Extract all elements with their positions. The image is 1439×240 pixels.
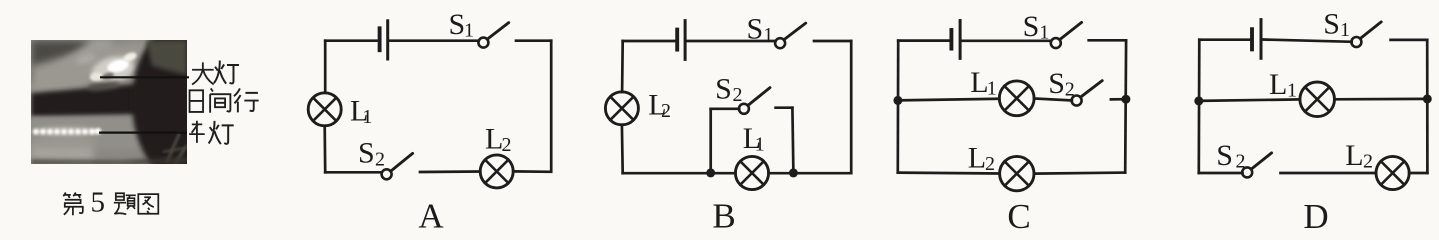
callout line to headlight (da deng) (100, 76, 189, 78)
junction node right (dot) (1121, 95, 1130, 104)
svg-text:1: 1 (1287, 79, 1297, 101)
label CHE (vehicle) (189, 121, 205, 143)
caption DI (ordinal) (63, 193, 83, 216)
label DENG (lamp) after DA (214, 60, 239, 83)
svg-text:1: 1 (987, 77, 997, 99)
svg-text:S: S (715, 72, 732, 105)
battery cell: short negative plate (949, 30, 953, 49)
switch S2 blade (748, 88, 770, 106)
wire D bottom-left to switch S2 (1199, 172, 1243, 175)
switch S2 blade (1251, 153, 1272, 169)
wire C bottom-right from L2 to corner (1034, 173, 1125, 174)
wire C top-right from corner to S1 (1089, 39, 1126, 42)
svg-text:2: 2 (733, 84, 743, 106)
svg-text:L: L (970, 66, 988, 99)
wire C left vertical (896, 41, 899, 173)
svg-text:2: 2 (661, 100, 671, 122)
switch S1 blade (784, 23, 806, 39)
svg-text:1: 1 (362, 106, 372, 128)
svg-text:C: C (1007, 197, 1030, 231)
battery cell: long positive plate (959, 21, 962, 59)
switch S2 pivot (1242, 167, 1252, 177)
switch S2 blade (391, 153, 413, 171)
battery cell: short negative plate (1250, 29, 1254, 49)
label DA (big) (192, 62, 214, 84)
svg-text:S: S (449, 8, 466, 41)
wire B top-left from battery to corner (623, 40, 677, 43)
battery cell: short negative plate (675, 30, 679, 50)
middle rail wire to lamp L1 (898, 99, 999, 101)
switch S1 blade (1360, 22, 1381, 39)
callout line to daytime running lamp (che deng) (99, 132, 187, 134)
lamp L2 (1000, 156, 1034, 190)
label DENG (lamp) after CHE (209, 121, 234, 144)
svg-text:2: 2 (1236, 150, 1246, 172)
battery cell: long positive plate (386, 21, 389, 59)
svg-text:2: 2 (502, 134, 512, 156)
caption TU (figure) (138, 194, 158, 214)
wire C top-left from battery to corner (898, 39, 951, 42)
wire A top between battery and S1 (389, 39, 478, 42)
switch S2 blade (1081, 81, 1103, 98)
svg-text:A: A (418, 197, 444, 232)
switch S2 pivot (739, 104, 749, 114)
wire A top-left from battery to left corner (325, 39, 379, 42)
lamp L1 (1300, 82, 1335, 117)
svg-text:S: S (1323, 8, 1340, 41)
svg-text:S: S (1023, 10, 1040, 43)
junction node left (dot) (893, 96, 902, 105)
wire A bottom to switch S2 (325, 171, 382, 174)
switch S1 blade (1060, 22, 1082, 39)
svg-text:S: S (358, 137, 375, 170)
svg-text:S: S (1048, 67, 1065, 100)
switch S1 pivot (478, 38, 488, 48)
wire B top-right from corner to S1 (814, 40, 851, 43)
S2 bypass branch: left vertical (709, 109, 712, 173)
svg-text:5: 5 (91, 187, 106, 219)
middle rail wire from L1 to switch S2 (1034, 99, 1072, 101)
wire A bottom-right and right vertical (513, 41, 551, 172)
label RI (sun) (190, 90, 204, 112)
svg-text:L: L (1269, 68, 1287, 101)
junction node right (dot) (1423, 94, 1432, 103)
svg-text:L: L (968, 142, 986, 175)
svg-text:1: 1 (1340, 19, 1350, 41)
wire C right vertical (1124, 40, 1128, 172)
battery cell: long positive plate (1260, 20, 1263, 59)
svg-text:S: S (1216, 139, 1233, 172)
svg-text:2: 2 (985, 153, 995, 175)
wire A top-right from corner to switch S1 (516, 39, 551, 42)
wire D top between battery and S1 (1263, 40, 1352, 42)
svg-text:1: 1 (763, 24, 773, 46)
wire A left vertical down to lamp L1 (324, 41, 327, 93)
wire B left vertical to lamp L2 (621, 41, 624, 92)
junction node left (dot) (1194, 96, 1203, 105)
caption TI (problem) (114, 193, 136, 214)
svg-text:2: 2 (1363, 150, 1373, 172)
svg-text:L: L (1345, 139, 1363, 172)
wire B bottom-right from L1 to corner (769, 172, 852, 175)
wire A bottom between S2 and L2 (420, 170, 480, 173)
svg-text:2: 2 (1065, 79, 1075, 101)
svg-text:D: D (1303, 197, 1328, 231)
lamp L1 (999, 81, 1034, 116)
svg-text:1: 1 (755, 133, 765, 155)
battery cell: long positive plate (684, 21, 687, 60)
wire D right vertical (1426, 40, 1429, 173)
wire D left vertical (1197, 40, 1200, 173)
switch S1 pivot (1351, 37, 1361, 47)
wire D bottom-right from L2 to corner (1409, 172, 1427, 175)
label JIAN (between) (210, 88, 230, 112)
svg-text:2: 2 (375, 148, 385, 170)
lamp L1 (308, 93, 341, 126)
switch S1 pivot (775, 38, 785, 48)
S2 branch right horizontal (776, 106, 793, 109)
wire D top-left from battery to corner (1199, 38, 1252, 41)
lamp L2 (1376, 156, 1409, 189)
switch S1 blade (488, 23, 509, 39)
switch S2 pivot (382, 169, 392, 179)
svg-text:1: 1 (464, 19, 474, 41)
wire B left vertical below L2 (621, 125, 624, 173)
wire D bottom between S2 and L2 (1281, 172, 1377, 175)
photo of car front (headlight + daytime running lamp) (31, 20, 242, 184)
label XING (go) (234, 88, 259, 112)
wire B top between battery and S1 (687, 40, 776, 43)
lamp L1 (735, 156, 768, 189)
middle rail wire from L1 to right junction (1335, 98, 1428, 101)
lamp L2 (480, 155, 513, 188)
svg-text:B: B (712, 197, 735, 232)
wire C bottom rail to lamp L2 (898, 171, 1000, 175)
switch S2 pivot (1072, 96, 1082, 106)
wire B bottom-left to lamp L1 (623, 172, 736, 175)
S2 branch horizontal to pivot (711, 107, 740, 110)
wire D top-right from corner to S1 (1391, 39, 1428, 42)
lamp L2 (605, 92, 638, 125)
switch S1 pivot (1051, 38, 1061, 48)
CJK glyphs drawn as paths (63, 60, 258, 215)
S2 branch right vertical down to junction (792, 108, 793, 173)
wire A left vertical below L1 to bottom corner (323, 126, 326, 173)
junction dot right (789, 168, 798, 177)
wire B right vertical (850, 41, 853, 173)
junction dot left (706, 168, 715, 177)
battery cell: short negative plate (378, 28, 382, 50)
middle rail wire to lamp L1 (1199, 99, 1300, 101)
wire C top between battery and S1 (962, 39, 1052, 42)
middle rail wire from S2 gap to right junction (1111, 98, 1126, 101)
